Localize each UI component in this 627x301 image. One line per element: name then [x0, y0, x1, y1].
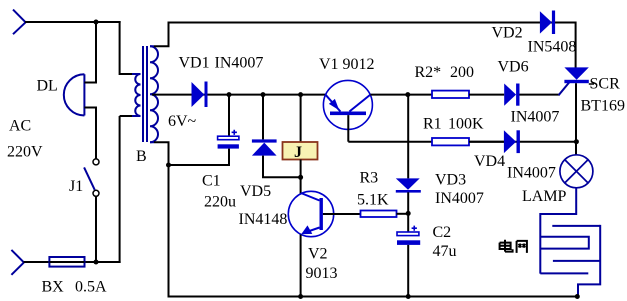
wire: secondary bottom stub: [154, 142, 169, 297]
wire: SCR cathode: [575, 83, 577, 155]
wire: SCR label tick: [589, 83, 594, 85]
svg-text:200: 200: [450, 64, 474, 81]
svg-text:DL: DL: [37, 78, 58, 95]
label 电网 (drawn glyphs): [500, 240, 527, 253]
transformer B core: [143, 46, 147, 142]
svg-text:IN4148: IN4148: [239, 211, 288, 228]
svg-text:R1: R1: [423, 116, 442, 133]
svg-text:100K: 100K: [448, 116, 484, 133]
fuse BX: [49, 257, 84, 267]
wire: VD5 top lead: [262, 95, 264, 140]
wire: top right corner down to SCR: [575, 22, 577, 69]
node: mains top junction: [94, 20, 99, 25]
svg-text:R3: R3: [360, 170, 379, 187]
node: V2 emitter on bottom rail: [298, 294, 303, 299]
resistor R3: [361, 211, 397, 218]
node: R2 junction: [405, 92, 410, 97]
svg-text:IN5408: IN5408: [528, 39, 577, 56]
wire: V2 emitter lead: [300, 235, 302, 298]
wire: left vertical to bell: [95, 22, 97, 84]
svg-text:V2: V2: [308, 246, 328, 263]
wire: relay bottom lead: [300, 160, 302, 194]
diode VD6: [504, 84, 519, 106]
svg-text:IN4007: IN4007: [507, 165, 556, 182]
svg-text:VD1: VD1: [179, 55, 210, 72]
svg-text:VD3: VD3: [435, 172, 466, 189]
wire: switch to fuse junction: [95, 196, 97, 263]
resistor R2: [432, 91, 469, 98]
wire: lamp to grid: [575, 188, 577, 215]
wire: bottom mains: [24, 261, 121, 263]
wire: vertical divider to VD3: [407, 95, 409, 179]
wire: primary top stub: [120, 73, 132, 75]
svg-text:220V: 220V: [7, 144, 43, 161]
grid electrode net: [540, 214, 600, 297]
wire: C2 bottom lead: [407, 245, 409, 297]
svg-text:47u: 47u: [433, 243, 457, 260]
wire: secondary mid tap rail: [152, 94, 326, 96]
wire: VD3 to R3 node: [407, 192, 409, 232]
capacitor C1: [218, 130, 239, 149]
wire: primary left vertical top: [119, 21, 121, 75]
relay coil J: [283, 142, 318, 161]
bell DL: [64, 74, 85, 115]
terminal arrow bottom-left: [11, 250, 24, 275]
wire: base rail to R1 and VD4: [348, 141, 576, 143]
diode VD4: [504, 130, 520, 153]
wire: relay top lead: [300, 95, 302, 142]
diode VD3: [396, 178, 421, 192]
wire: VD5 bottom lead: [263, 156, 301, 178]
resistor R1: [432, 138, 469, 145]
node: grid on bottom rail: [575, 294, 580, 299]
wire: R3 to node: [397, 213, 409, 215]
svg-text:IN4007: IN4007: [511, 109, 560, 126]
transistor V1: [323, 80, 372, 129]
node: V2 collector junction: [298, 175, 303, 180]
svg-text:6V~: 6V~: [168, 113, 197, 130]
svg-text:AC: AC: [9, 118, 31, 135]
svg-text:J: J: [294, 144, 302, 161]
diode VD5: [252, 139, 277, 155]
svg-text:IN4007: IN4007: [435, 190, 484, 207]
svg-text:LAMP: LAMP: [522, 188, 567, 205]
wire: primary bottom stub: [120, 115, 132, 117]
node: VD5 top junction: [261, 92, 266, 97]
wire: bell bottom stub: [84, 107, 96, 109]
wire: V1 base lead: [347, 115, 349, 142]
wire: VD6 to SCR gate: [520, 94, 560, 96]
wire: top rail: [168, 22, 576, 24]
wire: secondary top stub: [154, 23, 169, 47]
lamp LAMP: [560, 155, 593, 188]
svg-text:0.5A: 0.5A: [75, 279, 107, 296]
node: C1 top junction: [227, 92, 232, 97]
wire: bell to switch J1: [95, 107, 97, 160]
svg-text:VD4: VD4: [474, 153, 505, 170]
svg-text:9013: 9013: [306, 265, 338, 282]
SCR BT169: [564, 67, 588, 83]
node: relay J top junction: [298, 92, 303, 97]
svg-text:C1: C1: [202, 173, 221, 190]
wire: R2 to VD6: [469, 94, 504, 96]
svg-text:J1: J1: [69, 178, 83, 195]
svg-text:VD6: VD6: [498, 59, 529, 76]
svg-text:B: B: [136, 148, 147, 165]
node: fuse junction: [94, 260, 99, 265]
wire: collector rail to R2: [370, 94, 432, 96]
wire: bell top stub: [84, 82, 96, 84]
wire: primary left vertical bottom: [119, 116, 121, 263]
svg-text:9012: 9012: [343, 56, 375, 73]
wire: C1 top lead: [228, 95, 230, 137]
svg-text:SCR: SCR: [590, 76, 621, 93]
svg-text:R2*: R2*: [415, 64, 442, 81]
wire: C1 bottom lead: [169, 149, 230, 165]
terminal arrow top-left: [13, 10, 26, 35]
node: C2 bottom on rail: [406, 294, 411, 299]
node: C1 return junction: [166, 163, 171, 168]
diode VD1: [192, 82, 208, 108]
svg-text:VD5: VD5: [240, 183, 271, 200]
transformer B primary coil: [132, 74, 141, 116]
svg-text:5.1K: 5.1K: [357, 192, 389, 209]
diode VD2: [540, 11, 555, 35]
transformer B secondary coil: [150, 46, 158, 142]
capacitor C2: [397, 226, 420, 245]
svg-text:220u: 220u: [204, 194, 236, 211]
wire: bottom rail: [168, 296, 578, 298]
node: VD4 lamp junction: [574, 139, 579, 144]
svg-text:VD2: VD2: [492, 25, 523, 42]
svg-text:C2: C2: [433, 224, 452, 241]
switch J1: [84, 159, 99, 196]
wire: R1 to VD4: [469, 141, 504, 143]
svg-text:IN4007: IN4007: [215, 55, 264, 72]
svg-text:BX: BX: [42, 279, 65, 296]
transistor V2: [288, 191, 360, 236]
wire: mains top: [25, 21, 121, 23]
svg-text:V1: V1: [319, 56, 339, 73]
node: R3 C2 junction: [406, 211, 411, 216]
svg-text:BT169: BT169: [581, 98, 625, 115]
